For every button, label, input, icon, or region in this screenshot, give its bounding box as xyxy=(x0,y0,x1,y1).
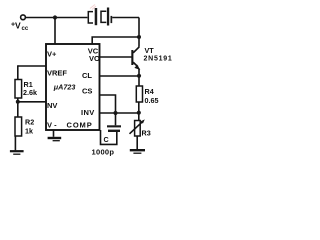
wire Vcc rail right segment xyxy=(112,17,139,19)
resistor R1 xyxy=(15,80,22,99)
wire rail drop to collector xyxy=(138,18,140,47)
capacitor C4 solid plate xyxy=(95,8,98,25)
svg-text:R4: R4 xyxy=(145,87,154,96)
wire CS xyxy=(100,95,116,113)
svg-text:NV: NV xyxy=(47,101,57,110)
svg-text:COMP: COMP xyxy=(67,121,93,130)
op-amp U1 body xyxy=(46,44,100,130)
svg-text:VO: VO xyxy=(89,54,100,63)
svg-text:cc: cc xyxy=(22,26,29,32)
node CL emitter junction xyxy=(137,74,141,78)
ground G2 under V- xyxy=(53,130,55,137)
svg-text:V+: V+ xyxy=(47,50,57,59)
capacitor polarity mark xyxy=(111,16,113,23)
terminal +Vcc xyxy=(21,15,26,20)
wire R4 bottom xyxy=(138,102,140,121)
svg-text:2N5191: 2N5191 xyxy=(144,56,173,63)
svg-text:V: V xyxy=(15,21,21,31)
ground G3 xyxy=(130,149,145,151)
wire C top lead xyxy=(115,113,117,125)
node NV junction xyxy=(16,100,20,104)
wire R2 bottom lead xyxy=(14,136,16,150)
svg-text:R3: R3 xyxy=(142,129,151,138)
ground G1 xyxy=(10,150,24,152)
wire V+ drop to IC xyxy=(54,18,56,45)
wire NV xyxy=(18,101,46,103)
watermark smudge xyxy=(90,5,96,10)
transistor VT emitter arrow xyxy=(134,65,140,70)
wire CL xyxy=(100,75,140,77)
wire COMP loop xyxy=(101,130,117,144)
svg-text:CS: CS xyxy=(82,87,92,96)
wire Vcc rail left segment xyxy=(25,17,87,19)
svg-text:1000p: 1000p xyxy=(92,148,115,157)
transistor VT emitter lead xyxy=(133,62,138,66)
node VC link junction xyxy=(137,35,141,39)
resistor R2 xyxy=(15,117,22,136)
wire INV run xyxy=(100,112,139,114)
capacitor C5 solid plate xyxy=(107,8,109,26)
resistor R3 arrow xyxy=(130,121,144,134)
capacitor C4 hollow plate xyxy=(88,12,93,23)
transistor VT collector lead xyxy=(133,47,139,53)
capacitor C top plate xyxy=(107,125,121,127)
node V+ tap junction xyxy=(53,15,57,19)
svg-text:VT: VT xyxy=(145,46,155,55)
capacitor C5 hollow plate xyxy=(101,11,106,22)
wire R3 bottom xyxy=(136,136,138,149)
svg-text:R2: R2 xyxy=(25,118,34,127)
svg-text:0.65: 0.65 xyxy=(145,96,159,105)
wire VREF to R1 xyxy=(18,65,46,67)
capacitor C bottom plate xyxy=(108,130,120,132)
svg-text:CL: CL xyxy=(82,71,92,80)
resistor R3 body xyxy=(135,121,141,137)
wire VC link xyxy=(92,37,139,44)
svg-text:V -: V - xyxy=(47,121,57,130)
svg-text:1k: 1k xyxy=(25,127,33,136)
wire R1 to R2 xyxy=(17,98,19,117)
svg-text:2.6k: 2.6k xyxy=(23,88,37,97)
svg-text:INV: INV xyxy=(81,108,95,117)
wire VO to base xyxy=(100,56,132,58)
wire emitter to R4 xyxy=(138,69,140,87)
wire R1 top lead xyxy=(17,65,19,79)
svg-text:μA723: μA723 xyxy=(53,83,76,92)
transistor VT base bar xyxy=(131,50,133,65)
resistor R4 xyxy=(136,86,142,102)
node CS INV junction xyxy=(113,111,117,115)
svg-text:VREF: VREF xyxy=(47,69,67,78)
node output junction xyxy=(137,111,141,115)
svg-text:C: C xyxy=(104,135,109,144)
